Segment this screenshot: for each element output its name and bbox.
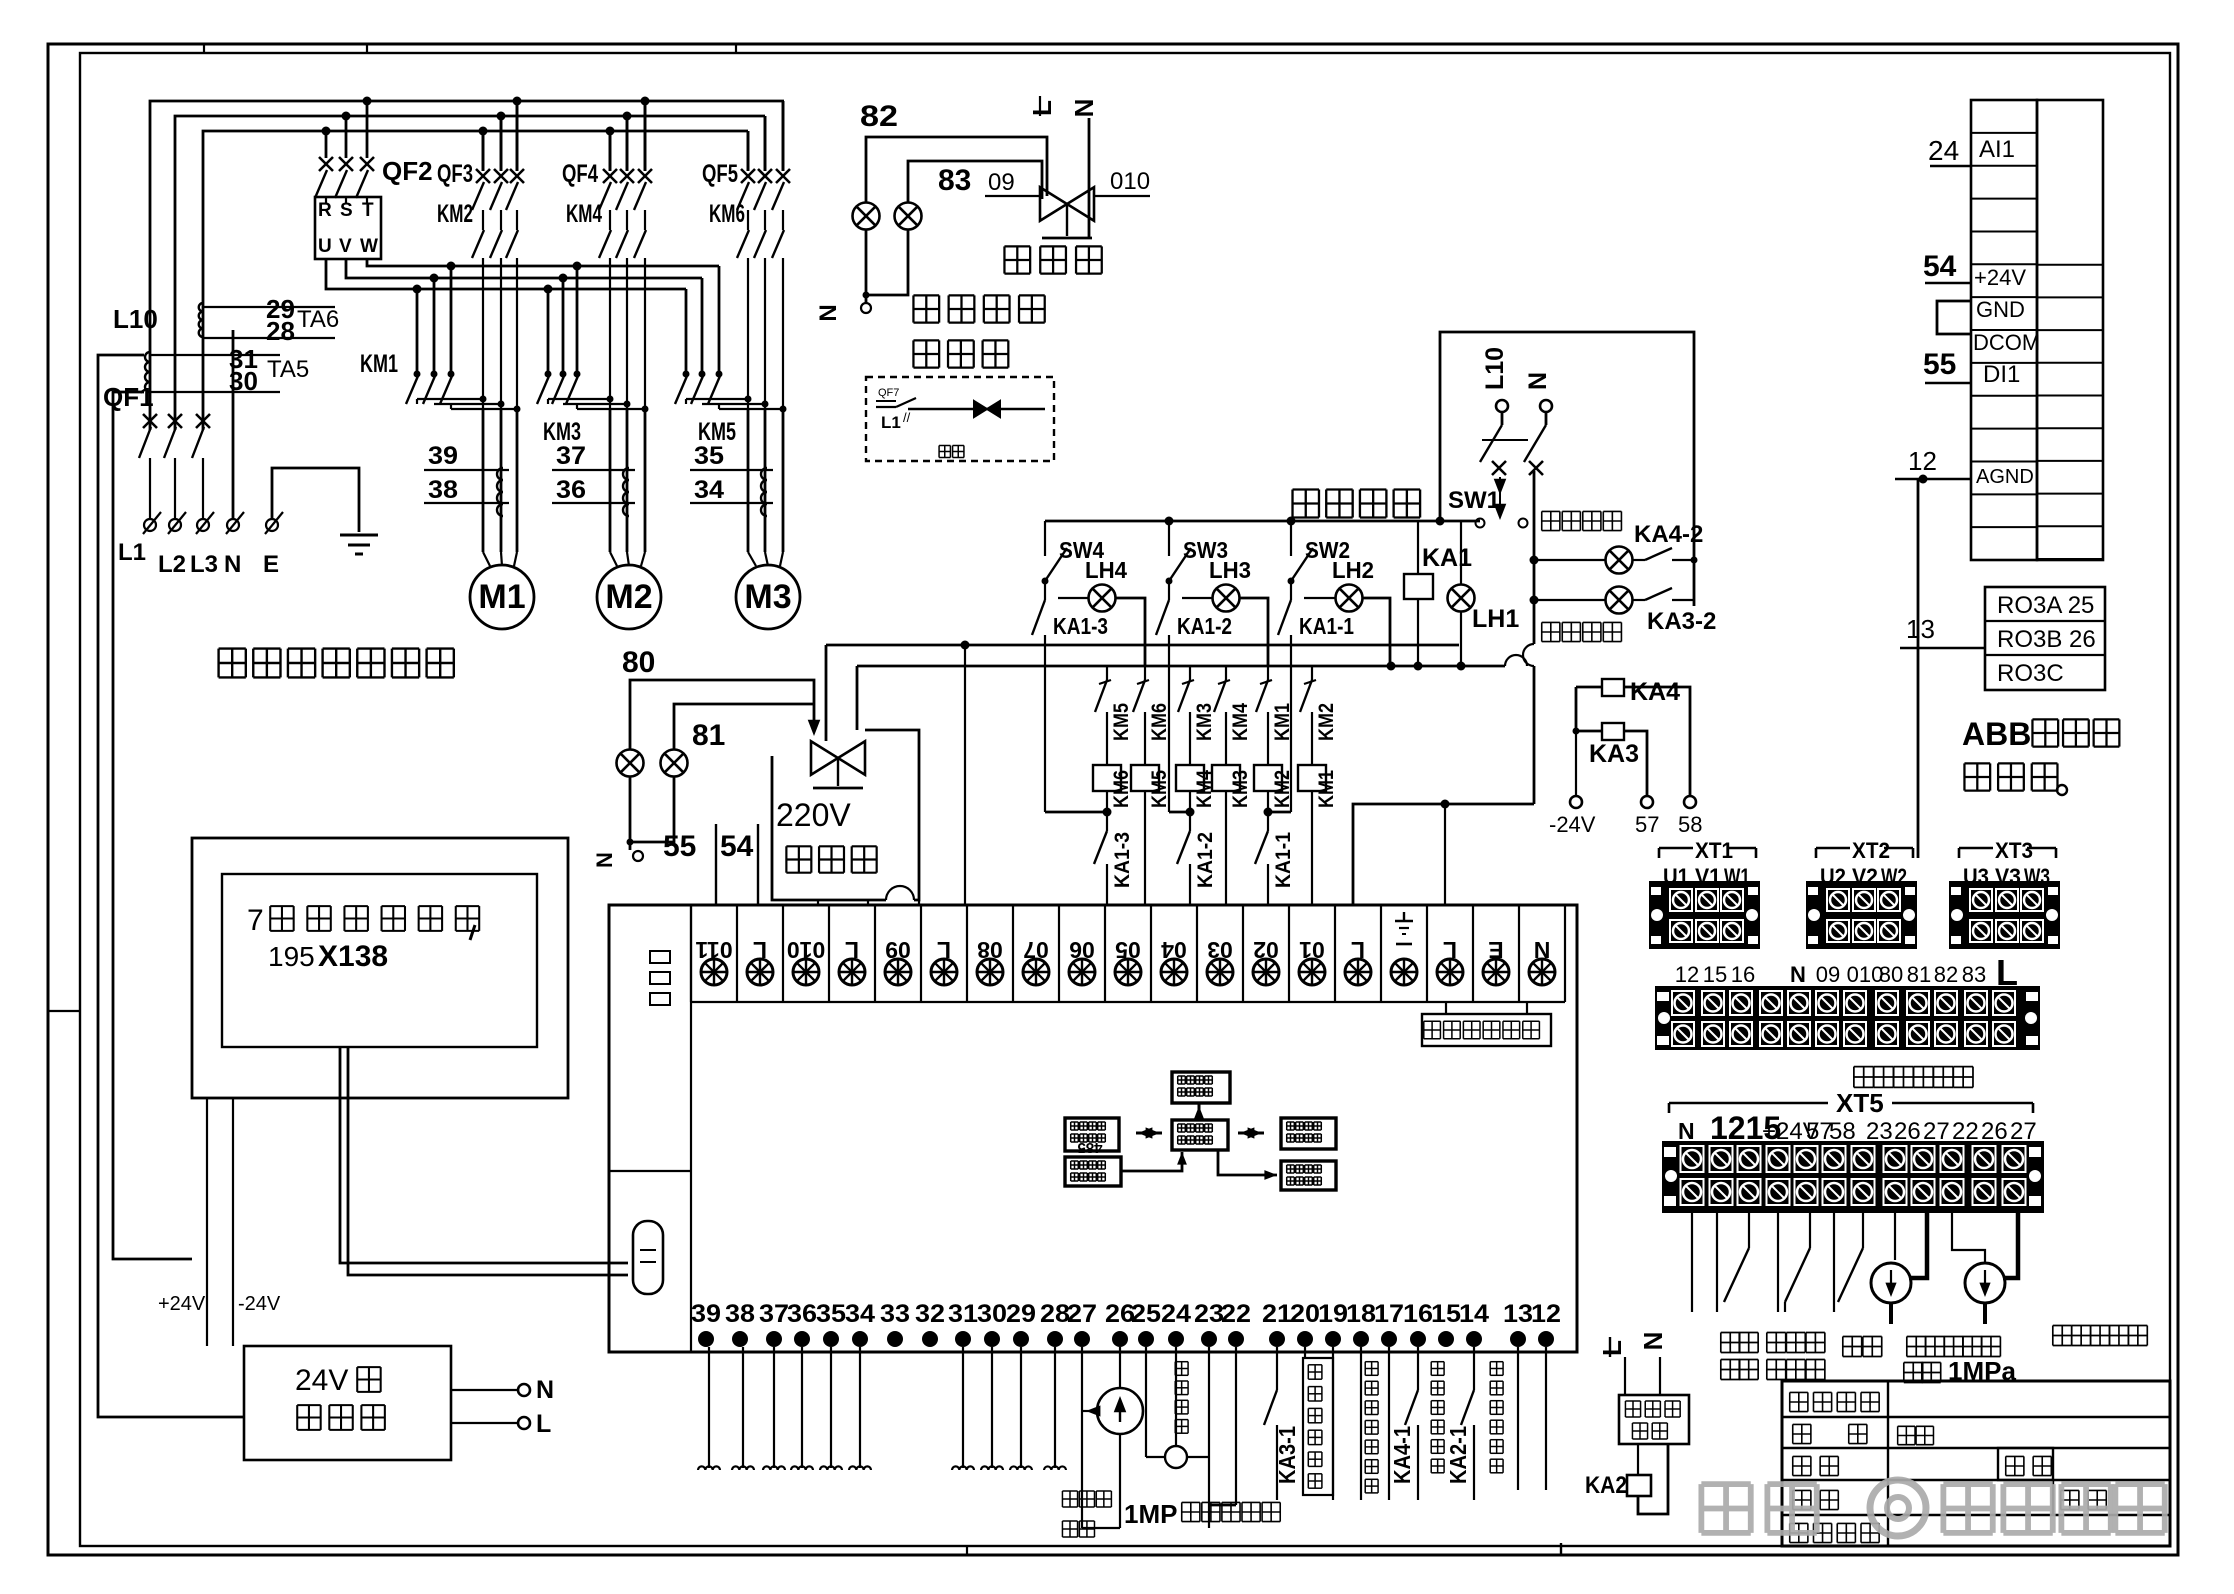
terminal block XT3 [1959,847,1993,850]
label box type [1898,1425,1915,1427]
terminal 58 [1684,796,1696,808]
label review [2006,1455,2024,1457]
svg-text:18: 18 [1346,1300,1376,1328]
label vfd fault signal [1490,1361,1503,1363]
wire timer leads top [1624,1357,1626,1395]
contact KA1-2 [1168,581,1170,600]
svg-text:22: 22 [1221,1300,1251,1328]
touch screen outer box [192,838,568,1098]
wire valve box right to PLC [867,900,869,905]
touch screen inner box [222,874,537,1047]
svg-text:80: 80 [622,646,655,679]
terminal N [227,519,239,531]
svg-text:34: 34 [845,1300,875,1328]
switch link bar [1482,439,1528,441]
svg-text:58: 58 [1678,812,1702,837]
wire 12 down to XT2 [1917,479,1920,858]
wire XT5 N column [1691,1213,1693,1312]
lamp 82 [853,203,880,230]
svg-text:RO3C: RO3C [1997,660,2064,687]
svg-text:09: 09 [988,169,1015,196]
wire rail drops KM3 [547,289,550,374]
wire earth bracket [272,468,359,532]
svg-text:KA1-3: KA1-3 [1111,832,1134,888]
svg-text:80: 80 [1879,962,1903,987]
wire 17 down [1388,1347,1390,1500]
comm wire host to printer [1218,1150,1277,1175]
svg-text:KM6: KM6 [709,200,745,228]
label water-shortage indicator [1542,621,1560,623]
wire LH4 to bus [1116,598,1145,666]
wire 19 down [1332,1347,1334,1500]
ground [340,534,378,537]
svg-text:28: 28 [1040,1300,1070,1328]
svg-text:RO3B 26: RO3B 26 [1997,626,2096,653]
svg-text:31: 31 [948,1300,978,1328]
svg-text:485: 485 [1077,1139,1102,1156]
wire QF5 feeders [747,131,750,171]
svg-text:N: N [592,852,617,868]
svg-text:N: N [536,1376,554,1404]
svg-text:LH4: LH4 [1085,557,1127,583]
breaker QF2 [319,157,333,171]
svg-text:L1: L1 [881,413,901,432]
svg-text:KM1: KM1 [360,350,398,378]
wire lamps to N terminal [865,229,868,303]
svg-text:QF3: QF3 [437,160,473,188]
breaker QF5 [747,131,750,171]
lamp water-shortage [1534,599,1606,601]
svg-text:M2: M2 [605,578,652,616]
svg-text:27: 27 [2010,1118,2037,1145]
svg-text://: // [903,410,911,425]
contact KM1 NC [1267,666,1269,680]
terminal 57 [1641,796,1653,808]
wire N cell to label box [1526,1002,1528,1014]
wire SW4 to KM6 coil [1045,811,1107,814]
svg-text:M1: M1 [478,578,525,616]
svg-text:-24V: -24V [1549,812,1596,837]
wire valve box to PLC O10 [817,900,819,905]
svg-text:010: 010 [1110,168,1150,195]
svg-text:T: T [362,200,374,221]
svg-text:82: 82 [1934,962,1958,987]
svg-text:26: 26 [1981,1118,2008,1145]
contact KA3-2 [1632,599,1645,601]
svg-text:37: 37 [759,1300,789,1328]
label overpressure [1843,1336,1862,1338]
label overpressure indicator [1542,510,1560,512]
relay KA3 [1576,687,1602,731]
wire LH3 to bus [1240,598,1268,666]
wire N rail down [1533,471,1536,644]
svg-text:L: L [536,1410,551,1438]
svg-text:KM5: KM5 [1110,703,1133,741]
svg-text:13: 13 [1906,614,1935,644]
terminal N [1540,400,1552,412]
label frequency signal [1175,1361,1188,1363]
svg-text:19: 19 [1318,1300,1348,1328]
svg-text:220V: 220V [776,797,851,833]
svg-text:QF5: QF5 [702,160,738,188]
contact KM5 NC [1106,666,1108,680]
svg-text:S: S [340,200,353,221]
terminal earth top cell 15 [1395,920,1413,923]
wires to motor M1 [482,409,485,552]
svg-text:L2: L2 [158,551,186,578]
svg-text:RO3A 25: RO3A 25 [1997,592,2094,619]
ABB terminal column right [2037,100,2103,560]
svg-text:KA3-2: KA3-2 [1647,608,1716,635]
svg-text:KA1-3: KA1-3 [1053,613,1108,639]
svg-text:58: 58 [1829,1118,1856,1145]
svg-text:+24V: +24V [158,1293,206,1315]
SW1 link arrow [1499,477,1501,516]
svg-text:54: 54 [720,830,754,863]
svg-text:33: 33 [880,1300,910,1328]
terminal block XT1 [1659,847,1693,850]
contact KA1-3 [1044,581,1046,600]
svg-text:24: 24 [1928,135,1959,166]
svg-text:54: 54 [1923,250,1957,283]
wire L cell to label box [1445,1002,1447,1014]
svg-text:KA1-2: KA1-2 [1177,613,1232,639]
breaker QF4 [609,131,612,171]
terminal PSU N [451,1389,518,1391]
svg-text:35: 35 [816,1300,846,1328]
city valve [811,741,838,774]
border tick marks [203,44,205,53]
svg-text:KA4-1: KA4-1 [1389,1426,1415,1484]
svg-text:KM3: KM3 [1193,703,1216,741]
switch overpressure [1833,1213,1835,1312]
wire 83 [908,161,1042,203]
svg-text:20: 20 [1290,1300,1320,1328]
svg-text:DCOM: DCOM [1973,330,2040,355]
svg-text:LH2: LH2 [1332,557,1374,583]
switch L10 blade [1501,412,1504,425]
svg-text:N: N [815,304,842,321]
svg-text:27: 27 [1067,1300,1097,1328]
svg-text:22: 22 [1952,1118,1979,1145]
title block [1782,1381,2170,1546]
svg-text:L1: L1 [118,539,146,566]
wire 55 [715,824,717,905]
svg-text:XT3: XT3 [1995,838,2033,863]
lamp overpressure [1534,559,1606,561]
label vacuum tank box [1304,1347,1306,1358]
comm arrow right [1238,1132,1264,1135]
valve interface terminal strip [1655,986,2040,1050]
svg-text:QF2: QF2 [382,156,433,186]
svg-text:KM2: KM2 [1315,703,1338,741]
svg-text:38: 38 [725,1300,755,1328]
svg-text:57: 57 [1635,812,1659,837]
svg-text:N: N [224,551,241,578]
wire lamps to N [629,776,632,850]
wire 23 down [1208,1347,1210,1528]
svg-text:AI1: AI1 [1979,136,2015,163]
svg-text:U: U [318,236,332,257]
svg-text:L: L [1597,1340,1627,1356]
svg-text:81: 81 [1907,962,1931,987]
svg-text:XT2: XT2 [1852,838,1890,863]
wire tank valve N [1088,118,1091,238]
svg-text:34: 34 [694,476,724,504]
svg-text:55: 55 [663,830,696,863]
svg-text:16: 16 [1731,962,1755,987]
svg-text:V: V [339,236,352,257]
svg-text:N: N [1678,1118,1695,1144]
wire 22 down [1235,1347,1237,1505]
wire bus2 to valve right [856,666,859,730]
terminal block XT2 [1816,847,1850,850]
terminal L3 [197,519,209,531]
wire screen to psu -24V [232,1098,234,1346]
wire 27 down [1081,1347,1083,1528]
svg-text:55: 55 [1923,348,1956,381]
svg-text:ABB: ABB [1962,716,2031,752]
comm box printer [1281,1161,1336,1190]
wire QF2 feeders [325,131,328,158]
small circle frequency [1175,1347,1177,1446]
svg-text:12: 12 [1531,1300,1561,1328]
svg-text:15: 15 [1431,1300,1461,1328]
svg-text:83: 83 [1962,962,1986,987]
PLC body [609,905,1577,1352]
svg-text:12: 12 [1908,446,1937,476]
svg-text:83: 83 [938,164,971,197]
wire rail drops KM1 [416,289,419,374]
svg-text:24V: 24V [295,1364,348,1397]
wires to motor M3 [747,409,750,552]
svg-text:KA1-1: KA1-1 [1299,613,1354,639]
wire KM5 coil to O5 [1144,791,1146,905]
wire 80 [630,680,814,750]
svg-text:KM2: KM2 [437,200,473,228]
svg-text:N: N [1790,962,1806,987]
label tank shortage signal [1431,1361,1444,1363]
svg-text:N: N [1638,1332,1668,1351]
PLC left column [690,905,692,1352]
svg-text:L: L [1027,100,1057,116]
wire 18 down [1360,1347,1362,1500]
svg-text:KA3-1: KA3-1 [1274,1426,1300,1484]
svg-text:KM4: KM4 [1229,703,1252,741]
label tank shortage [1721,1332,1740,1334]
comm box inverter link [1172,1072,1230,1103]
label city net valve [786,845,811,847]
terminal L2 [169,519,181,531]
svg-text:37: 37 [556,442,586,470]
svg-text:W: W [360,236,378,257]
legend dashed box [866,377,1054,461]
comm box expand port [1281,1118,1336,1149]
svg-text:13: 13 [1503,1300,1533,1328]
legend caption [939,445,950,447]
inlet pressure gauge [1894,1213,1896,1260]
comm arrow left [1136,1132,1162,1135]
svg-text:21: 21 [1262,1300,1292,1328]
legend wire and damper [908,408,1045,410]
PLC indicator squares [650,951,670,963]
label tank valve caption [1004,245,1030,247]
svg-text:KM1: KM1 [1271,703,1294,741]
svg-text:17: 17 [1374,1300,1404,1328]
terminal E [266,519,278,531]
svg-text:TA6: TA6 [297,306,339,333]
svg-text:81: 81 [692,719,725,752]
wire L10 feed left [98,355,244,1417]
city valve box [772,756,886,900]
svg-text:-24V: -24V [238,1293,281,1315]
contact KA1-1 lower [1267,791,1269,831]
wires to motor M2 [609,409,612,552]
svg-text:KM4: KM4 [566,200,602,228]
wire rail ends KM5 [685,289,688,374]
svg-text:09: 09 [1816,962,1840,987]
outlet pressure gauge XT5 [1952,1213,1985,1264]
contact KM3 NC [1189,666,1191,680]
svg-text:E: E [263,551,279,578]
switch N blade [1545,412,1548,425]
wire bus1 drop to O9 [964,645,966,905]
svg-text:36: 36 [556,476,586,504]
svg-text:R: R [318,200,332,221]
svg-text:38: 38 [428,476,458,504]
svg-text:32: 32 [915,1300,945,1328]
svg-text:30: 30 [977,1300,1007,1328]
comm arrow up [1198,1104,1201,1120]
outlet pressure gauge [1119,1347,1121,1388]
comm box 485 adapter [1065,1118,1119,1151]
transformer TA6 [199,303,203,337]
svg-text:SW1: SW1 [1448,487,1500,514]
label valve switch caption 2 [913,339,939,341]
terminal L1 [144,519,156,531]
svg-text:TA5: TA5 [267,356,309,383]
comm box host [1172,1120,1228,1150]
switch tank shortage [1716,1213,1718,1312]
wire 54 [757,824,759,905]
svg-text:7: 7 [247,904,264,937]
lamp 80 [617,750,644,777]
label valve control interface [1854,1066,1874,1068]
wire SW2 to KM2 coil [1268,811,1291,814]
svg-text:QF4: QF4 [562,160,598,188]
svg-text:82: 82 [860,100,898,133]
label forced manual [1293,488,1319,490]
label valve indicator caption left [219,647,246,649]
label unit name [1790,1522,1808,1524]
contact KA4-1 [1417,1347,1419,1390]
breaker QF3 [482,131,485,171]
transformer TA5 [145,352,150,392]
contact KA1-3 lower [1106,791,1108,831]
svg-text:LH1: LH1 [1472,605,1519,633]
svg-text:KA1-1: KA1-1 [1272,832,1295,888]
wire KM3 coil to O3 [1225,791,1227,905]
svg-text:195: 195 [268,941,315,972]
svg-text:30: 30 [229,366,258,396]
label scale [1793,1489,1811,1491]
wire GND-DCOM jumper [1937,301,1971,334]
label fixed 1MPa [1904,1362,1923,1364]
svg-text:16: 16 [1403,1300,1433,1328]
wire control bus 1 [826,644,1459,647]
contact KM6 NC [1144,666,1146,680]
svg-text:14: 14 [1459,1300,1489,1328]
relay output box RO3 [1985,587,2105,690]
wire 25 down [1145,1347,1147,1457]
svg-text:39: 39 [428,442,458,470]
svg-text:23: 23 [1866,1118,1893,1145]
svg-text:M3: M3 [744,578,791,616]
svg-text:XT5: XT5 [1836,1088,1884,1118]
terminal L10 [1496,400,1508,412]
svg-text:26: 26 [1894,1118,1921,1145]
svg-text:DI1: DI1 [1983,361,2020,388]
label outlet gauge [2053,1325,2072,1327]
svg-text:39: 39 [691,1300,721,1328]
svg-text:L10: L10 [113,304,158,334]
label inlet gauge [1907,1336,1926,1338]
contact KM4 NC [1225,666,1227,680]
wire SW3 to KM4 coil [1169,811,1190,814]
wire KM1 coil to O1 [1311,791,1313,905]
label box pump power section [1422,1014,1551,1046]
watermark [1701,1480,2164,1536]
title cell reviewer [1998,1448,2053,1480]
label 24V PSU line2 [297,1404,320,1406]
label outlet pressure 1 [1062,1490,1077,1492]
lamp 81 [661,750,688,777]
wire N rail to L cells [1353,804,1534,905]
lamp LH1 [1460,521,1462,585]
svg-text:35: 35 [694,442,724,470]
svg-text:KA3: KA3 [1589,740,1639,768]
terminal strip XT5 [1662,1141,2044,1213]
svg-text:L10: L10 [1481,347,1509,390]
svg-text:1MP: 1MP [1124,1499,1177,1529]
svg-text:KA4-2: KA4-2 [1634,521,1703,548]
svg-text:KA2-1: KA2-1 [1445,1426,1471,1484]
svg-text:X138: X138 [318,940,388,973]
inverter box R S T / U V W [315,197,381,259]
svg-text:+24V: +24V [1974,265,2026,290]
svg-text:XT1: XT1 [1695,838,1733,863]
terminal -24V [1570,796,1582,808]
terminal PSU L [451,1422,518,1424]
svg-text:KA2: KA2 [1585,1472,1627,1499]
label customer name [1790,1391,1808,1393]
wire 82 [866,137,1047,203]
svg-text:KA4: KA4 [1630,678,1680,706]
svg-text:23: 23 [1194,1300,1224,1328]
motor M2 [597,565,661,629]
wire timer to KA2 [1637,1444,1639,1475]
comm wire display to host [1121,1152,1182,1171]
lamp 83 [895,203,922,230]
PLC DB9 connector [633,1221,663,1294]
svg-text:QF7: QF7 [878,387,899,399]
label date [2061,1489,2079,1491]
wire SW column bus [1045,520,1480,523]
contact KA1-2 lower [1189,791,1191,831]
svg-text:KM6: KM6 [1148,703,1171,741]
contact KA3-1 [1276,1347,1278,1390]
contact KM2 NC [1311,666,1313,680]
